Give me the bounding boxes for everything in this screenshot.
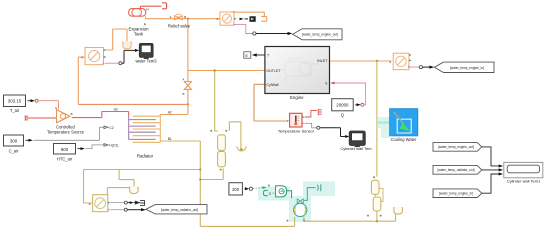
wire: relief valve vertical x188 down to radiator A2 [160,19,188,116]
node: junction pipes bottom [376,220,378,222]
wire: T_air to controlled temp source S port [38,101,58,110]
wire: sensor1 T to goto tag (pink then black) [234,24,252,33]
selection highlight behind pump group [258,117,390,222]
constant 200 [229,183,253,195]
wire: main loop horizontal from expansion tank to sensor1 [146,16,221,19]
svg-text:H2: H2 [114,107,118,111]
svg-text:[water_temp_radiator_out]: [water_temp_radiator_out] [437,168,474,172]
wire: pump to right clamp (teal) [304,188,316,201]
svg-text:[water_temp_engine_in]: [water_temp_engine_in] [450,66,484,70]
constant 20000 / Q [332,99,364,118]
svg-text:B1: B1 [168,137,172,141]
tan tank (left small) [130,187,139,194]
svg-text:Q: Q [341,113,344,118]
wire: drop from y169.5 to tan tank [119,170,134,187]
wire: from tag2 to display [482,169,499,171]
sensor2 water Tem3 sensor (left) [81,48,106,65]
port markers of right pipes [373,176,375,178]
svg-text:Radiator: Radiator [137,153,154,158]
svg-text:200: 200 [232,187,240,192]
svg-text:[water_temp_engine_out]: [water_temp_engine_out] [438,145,474,149]
goto tag water_temp_engine_out [293,29,342,40]
engine block [265,47,330,101]
svg-text:600: 600 [61,147,69,152]
svg-text:Cylinder wall Tem: Cylinder wall Tem [340,146,372,151]
wire: 200 to pump control (dashed) [253,188,263,189]
port markers of left pipes [210,130,212,132]
wire: reference to source A [30,117,56,119]
svg-text:E: E [245,53,248,58]
svg-text:H(C2): H(C2) [109,144,118,148]
pump [294,199,307,216]
svg-text:S: S [325,81,327,85]
wire: C_air to C2 port [34,127,105,140]
temperature sensor sensor1 (top) [216,11,236,25]
wire: sensor3 P to terminator [111,202,125,204]
svg-text:Engine: Engine [290,95,304,100]
svg-text:C_air: C_air [9,149,19,154]
constant 303.15 / T_air [4,95,39,113]
wire: y169.5 horizontal left loop [84,170,201,204]
svg-text:Cylinder wall Tem1: Cylinder wall Tem1 [507,179,541,184]
svg-text:Tank: Tank [134,32,144,37]
small tank below expansion tank label [123,41,131,48]
svg-text:[water_temp_engine_out]: [water_temp_engine_out] [302,33,338,37]
svg-text:300: 300 [10,138,18,143]
svg-text:303.15: 303.15 [8,99,22,104]
circle element (rotational port) near pipes [237,146,246,151]
thermal reference (red hatch) right [318,109,322,116]
svg-text:[water_temp_engine_in]: [water_temp_engine_in] [439,192,473,196]
wire: sensor3 T to goto tag radiator_out [111,209,125,211]
wire: pipe bottom to x200 at y179.5 [200,169,223,180]
from tag water_temp_engine_out (right column 1) [433,143,482,152]
node: junction y169.5 x200 [199,168,201,170]
wire: sensor2 T to scope (pink/black) [105,62,119,64]
scope Cylinder wall Tem [349,131,365,147]
svg-text:A: A [170,15,172,19]
svg-text:A: A [183,78,185,82]
wire: controlled temp source to radiator H2 (red) [72,112,129,118]
svg-text:B: B [268,184,270,188]
wire: sensor3 B up to tank line [107,188,134,195]
svg-text:CylWall: CylWall [266,83,278,87]
svg-text:T_air: T_air [10,108,20,113]
clamp on expansion tank top (red) [162,3,167,9]
terminator icon [135,200,144,205]
svg-text:INLET: INLET [317,59,328,63]
node: junction relief valve line [187,18,189,20]
svg-text:C2: C2 [109,126,113,130]
wire: from tag3 to display [482,174,499,193]
from tag water_temp_engine_in (right column 3) [433,189,482,198]
node: junction INLET y61 [376,60,378,62]
wire: HTC_air to HC2 port [86,145,105,149]
tan tank (right) [394,207,403,214]
constant 600 / HTC_air [54,144,85,162]
svg-text:A: A [89,202,91,206]
scope water Tem3 [139,43,153,59]
wire: tan branch from y70 line down to left pipe [215,71,218,132]
svg-text:B: B [184,15,186,19]
svg-text:20000: 20000 [336,103,349,108]
wire: radiator B1 to x200 vertical [160,140,200,142]
wire: expansion tank top red to clamp [140,6,161,8]
svg-text:A: A [389,60,391,64]
wire: sensor2 loop down and right at y104 [78,57,188,104]
svg-text:Cooling Water: Cooling Water [391,137,417,142]
wire: pump right to pipes bottom and tank [304,211,396,221]
wire: from tag1 to display [482,147,499,166]
cooling water block [390,109,418,136]
wire: engine CylWall down to temperature sensor [254,84,288,121]
wire: engine OUTLET to x188 vertical [188,70,265,72]
wire: pipe top right branch to circle element [229,122,241,149]
pipe block left pipe 1 [218,135,226,151]
radiator [129,116,161,143]
display Cylinder wall Tem1 [504,162,543,177]
wire: long tan vertical x377 down to pipe [376,61,378,177]
teal clamp right of pump [317,184,321,191]
goto tag water_temp_radiator_out [146,205,207,214]
svg-text:Relief valve: Relief valve [168,24,191,29]
relief valve icon [175,14,182,19]
wire: pentagon to pump (green) [287,191,292,199]
svg-text:B: B [71,112,73,116]
expansion tank [129,9,146,17]
wire: pale cyan to Cooling Water [377,121,390,123]
wire: Q to engine S port (pink) [335,83,366,105]
svg-text:HTC_air: HTC_air [57,156,73,161]
from tag E at engine T port [244,52,265,58]
wire: sensor2 B up over label to small tank [104,29,128,50]
S clamp (green) [263,190,267,195]
svg-text:Temperature Sensor: Temperature Sensor [278,129,315,134]
pump controller pentagon (green) [276,186,287,197]
temperature sensor (red, under engine) [287,113,305,127]
svg-text:A2: A2 [168,110,172,114]
from tag water_temp_radiator_out (right column 2) [433,166,482,175]
clamp right of sensor1 (orange) [234,12,264,16]
bypass line of right pipes [379,189,383,202]
svg-text:B: B [183,92,185,96]
sensor3 (tan, bottom-left) [89,195,111,212]
svg-text:[water_temp_radiator_out]: [water_temp_radiator_out] [161,208,198,212]
wire: x200 long vertical [199,141,201,226]
right pipe 2 [373,197,381,211]
svg-text:OUTLET: OUTLET [266,69,281,73]
svg-text:S: S [55,106,57,110]
constant 300 / C_air [4,135,33,154]
svg-text:A: A [216,17,218,21]
goto tag water_temp_engine_in [434,62,494,72]
controlled temperature source triangle [55,106,73,123]
thermal reference left of source (red hatch) [25,115,30,120]
node: junction y70 x215 [214,69,216,71]
wire: engine INLET to sensor4 [329,60,391,62]
ps-simulink converter after sensor1 P [240,18,244,21]
sensor4 (top right) [389,53,412,69]
svg-text:Temperature Source: Temperature Source [47,130,85,135]
right pipe 1 [371,180,379,194]
pump bottom port markers [286,220,288,222]
wire: sensor4 T to goto tag engine_in [410,66,420,69]
wire: sensor B to thermal reference (red) [305,111,317,118]
svg-text:A: A [81,56,83,60]
valve on vertical line x188 [184,82,191,90]
wire: bottom run y226 to pump [200,217,294,226]
svg-text:S: S [269,192,271,196]
pipe block left pipe 2 [218,151,226,166]
svg-text:water Tem3: water Tem3 [135,59,157,64]
node: junction x200 y179.5 [199,178,201,180]
node: junction at x188 y104 [187,103,189,105]
wire: sensor T to scope Cylinder wall Tem [305,123,317,128]
